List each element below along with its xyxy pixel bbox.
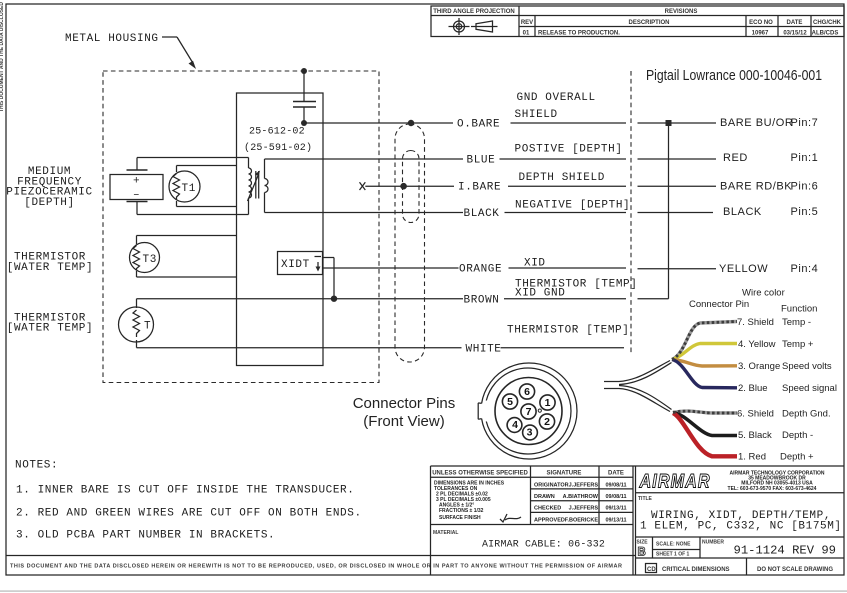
svg-text:TITLE: TITLE [638,496,653,502]
svg-text:CD: CD [647,567,656,573]
svg-text:F.BOERICKE: F.BOERICKE [565,517,599,523]
svg-text:REV: REV [521,20,533,26]
svg-text:3. Orange: 3. Orange [738,361,780,372]
svg-text:(Front View): (Front View) [363,413,444,430]
svg-text:4: 4 [512,419,518,431]
svg-text:CHG/CHK: CHG/CHK [813,20,842,26]
svg-text:01: 01 [523,31,530,37]
svg-text:THIRD ANGLE PROJECTION: THIRD ANGLE PROJECTION [433,9,514,15]
svg-text:AIRMAR CABLE: 06-332: AIRMAR CABLE: 06-332 [482,540,605,551]
svg-text:SHEET 1 OF 1: SHEET 1 OF 1 [656,552,690,558]
svg-text:B: B [638,547,646,559]
svg-text:Depth Gnd.: Depth Gnd. [782,409,831,420]
svg-text:REVISIONS: REVISIONS [665,9,698,15]
svg-text:FRACTIONS ± 1/32: FRACTIONS ± 1/32 [439,508,484,514]
svg-text:T1: T1 [182,183,196,195]
svg-text:THERMISTOR [TEMP]: THERMISTOR [TEMP] [507,325,629,337]
svg-text:T: T [144,320,151,332]
svg-text:09/08/11: 09/08/11 [605,494,626,500]
svg-text:ECO NO: ECO NO [749,20,773,26]
svg-text:Depth +: Depth + [780,452,814,463]
svg-text:1. Red: 1. Red [738,452,766,463]
svg-text:09/13/11: 09/13/11 [605,517,626,523]
svg-text:5: 5 [507,396,513,408]
svg-text:91-1124 REV 99: 91-1124 REV 99 [734,544,837,558]
svg-text:A.BIATHROW: A.BIATHROW [563,494,599,500]
svg-text:Pin:1: Pin:1 [791,152,819,164]
svg-text:2: 2 [544,416,550,428]
svg-text:Function: Function [781,304,817,315]
svg-text:1: 1 [545,397,551,409]
svg-text:09/13/11: 09/13/11 [605,506,626,512]
svg-text:09/08/11: 09/08/11 [605,482,626,488]
svg-text:J.JEFFERS: J.JEFFERS [569,482,599,488]
svg-text:1. INNER BARE IS CUT OFF INSID: 1. INNER BARE IS CUT OFF INSIDE THE TRAN… [16,485,354,497]
svg-text:DRAWN: DRAWN [534,494,555,500]
svg-text:RED: RED [723,152,748,164]
svg-text:Temp -: Temp - [782,317,811,328]
svg-text:DO NOT SCALE DRAWING: DO NOT SCALE DRAWING [757,567,833,573]
svg-text:2. Blue: 2. Blue [738,383,768,394]
svg-text:7. Shield: 7. Shield [737,317,774,328]
svg-text:UNLESS OTHERWISE SPECIFIED: UNLESS OTHERWISE SPECIFIED [432,471,528,477]
svg-text:BLUE: BLUE [467,155,496,167]
svg-text:O.BARE: O.BARE [457,119,500,131]
svg-text:J.JEFFERS: J.JEFFERS [569,506,599,512]
svg-text:6: 6 [524,386,530,398]
svg-text:5. Black: 5. Black [738,430,772,441]
svg-text:THIS DOCUMENT AND THE DATA DIS: THIS DOCUMENT AND THE DATA DISCLOSED HER… [10,564,622,570]
svg-text:Connector Pins: Connector Pins [353,395,456,412]
svg-text:GND OVERALL: GND OVERALL [517,92,596,104]
svg-text:NEGATIVE [DEPTH]: NEGATIVE [DEPTH] [515,200,630,212]
svg-text:BARE RD/BK: BARE RD/BK [720,180,792,192]
svg-text:6. Shield: 6. Shield [737,409,774,420]
svg-text:DESCRIPTION: DESCRIPTION [628,20,669,26]
svg-text:Speed volts: Speed volts [782,361,832,372]
svg-text:XID: XID [524,257,546,269]
svg-text:NUMBER: NUMBER [702,540,724,546]
svg-text:ORANGE: ORANGE [459,264,502,276]
svg-text:BLACK: BLACK [464,208,500,220]
svg-text:Wire color: Wire color [742,288,785,299]
svg-text:BARE BU/OR: BARE BU/OR [720,117,793,129]
svg-text:ALB/CDS: ALB/CDS [812,31,839,37]
svg-text:T3: T3 [143,254,157,266]
svg-text:BROWN: BROWN [464,294,500,306]
svg-text:10967: 10967 [752,31,769,37]
svg-text:(25-591-02): (25-591-02) [244,142,312,154]
svg-text:DEPTH SHIELD: DEPTH SHIELD [519,172,605,184]
svg-text:MATERIAL: MATERIAL [433,530,458,536]
svg-text:Pin:4: Pin:4 [791,263,819,275]
svg-text:Speed signal: Speed signal [782,383,837,394]
svg-text:+: + [133,176,140,188]
svg-text:Pigtail Lowrance 000-10046-001: Pigtail Lowrance 000-10046-001 [646,67,822,84]
svg-text:[WATER TEMP]: [WATER TEMP] [7,262,93,274]
svg-text:BLACK: BLACK [723,206,762,218]
svg-text:XIDT: XIDT [281,259,310,271]
svg-text:Connector Pin: Connector Pin [689,299,749,310]
svg-text:25-612-02: 25-612-02 [249,127,305,138]
svg-text:WHITE: WHITE [466,343,502,355]
svg-text:YELLOW: YELLOW [719,263,768,275]
svg-text:SURFACE FINISH: SURFACE FINISH [439,515,481,521]
svg-text:2. RED AND GREEN WIRES ARE CUT: 2. RED AND GREEN WIRES ARE CUT OFF ON BO… [16,508,362,520]
svg-text:NOTES:: NOTES: [15,460,58,472]
svg-text:APPROVED: APPROVED [534,517,565,523]
svg-text:DATE: DATE [787,20,803,26]
svg-text:7: 7 [526,406,532,418]
svg-text:RELEASE TO PRODUCTION.: RELEASE TO PRODUCTION. [538,31,620,37]
svg-text:SIGNATURE: SIGNATURE [547,471,582,477]
svg-text:XID GND: XID GND [515,288,565,300]
svg-text:Depth -: Depth - [782,430,813,441]
svg-text:–: – [133,190,140,202]
svg-text:Pin:5: Pin:5 [791,206,819,218]
svg-text:4. Yellow: 4. Yellow [738,339,776,350]
svg-text:POSTIVE [DEPTH]: POSTIVE [DEPTH] [515,144,623,156]
svg-text:1 ELEM, PC, C332, NC [B175M]: 1 ELEM, PC, C332, NC [B175M] [640,521,842,533]
svg-text:Pin:7: Pin:7 [791,117,819,129]
svg-text:3. OLD PCBA PART NUMBER IN BRA: 3. OLD PCBA PART NUMBER IN BRACKETS. [16,530,275,542]
svg-text:METAL HOUSING: METAL HOUSING [65,33,159,45]
svg-text:AIRMAR: AIRMAR [639,470,711,492]
svg-text:3: 3 [527,427,533,439]
svg-text:DATE: DATE [608,471,624,477]
svg-text:I.BARE: I.BARE [458,181,501,193]
svg-text:[DEPTH]: [DEPTH] [24,197,74,209]
svg-text:SIZE: SIZE [637,540,649,546]
svg-text:CRITICAL DIMENSIONS: CRITICAL DIMENSIONS [662,567,730,573]
svg-text:TEL: 603-673-9570 FAX: 603-67: TEL: 603-673-9570 FAX: 603-673-4624 [728,486,817,492]
svg-text:Temp +: Temp + [782,339,814,350]
svg-text:SCALE: NONE: SCALE: NONE [656,542,691,548]
svg-text:CHECKED: CHECKED [534,506,561,512]
svg-text:Pin:6: Pin:6 [791,180,819,192]
svg-text:THIS DOCUMENT AND THE DATA DIS: THIS DOCUMENT AND THE DATA DISCLOSED [0,2,5,112]
svg-text:[WATER TEMP]: [WATER TEMP] [7,323,93,335]
svg-text:03/15/12: 03/15/12 [783,31,807,37]
svg-text:SHIELD: SHIELD [515,109,558,121]
svg-text:ORIGINATOR: ORIGINATOR [534,482,569,488]
